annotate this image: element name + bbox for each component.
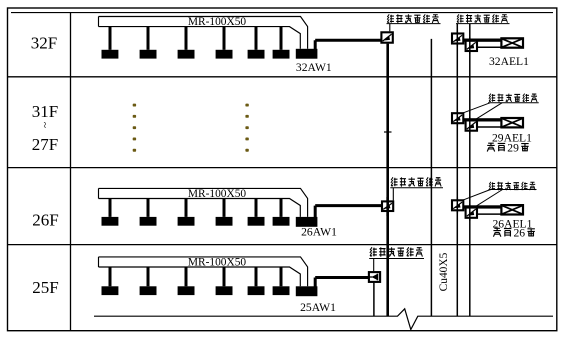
wire from 26AW1 to clamp (315, 206, 381, 218)
load block 4 row 32F (216, 50, 233, 59)
piercing clamp upper 32AEL1 (452, 34, 463, 44)
insulation piercing clamp 32F (381, 32, 392, 42)
luminaire 26AEL1 (501, 205, 523, 214)
drop stem 1 row 26F (109, 198, 112, 217)
leader from label to 26F clamp (392, 188, 394, 201)
busbar MR-100X50 row 25F (99, 257, 308, 286)
load block 1 row 32F (102, 50, 119, 59)
load block 2 row 25F (140, 286, 157, 295)
svg-text:26AW1: 26AW1 (301, 226, 337, 239)
cable return line 26AEL1 (478, 213, 501, 215)
riser Cu40X5 (430, 39, 432, 316)
svg-text:27F: 27F (32, 135, 58, 154)
load block 6 row 32F (273, 50, 290, 59)
cable bar 32AEL1 (464, 39, 501, 42)
drop stem 3 row 25F (185, 267, 188, 287)
cable return line 32AEL1 (478, 46, 501, 48)
riser A overlay through cluster clamps (456, 31, 458, 47)
load block 6 row 25F (273, 286, 290, 295)
load block 2 row 32F (140, 50, 157, 59)
luminaire 29AEL1 (501, 118, 523, 127)
riser overlay through 26F clamp (386, 197, 389, 216)
luminaire 32AEL1 (501, 38, 523, 47)
svg-text:MR-100X50: MR-100X50 (188, 16, 247, 28)
drop stem 3 row 32F (185, 26, 188, 50)
load block 3 row 32F (178, 50, 195, 59)
leader from label to 32F clamp (389, 24, 391, 32)
load block 1 row 25F (102, 286, 119, 295)
piercing clamp lower 32AEL1 (466, 41, 477, 52)
drop from 25F clamp to bottom (373, 283, 375, 317)
drop stem 6 row 32F (280, 26, 283, 50)
drop stem 6 row 26F (280, 198, 283, 217)
connector block 25AW1 (296, 286, 318, 296)
piercing clamp upper 29AEL1 (452, 113, 463, 123)
drop stem 5 row 26F (255, 198, 258, 217)
svg-text:~: ~ (39, 122, 51, 128)
svg-text:26: 26 (514, 227, 526, 240)
riser phase line A (456, 24, 458, 317)
piercing clamp lower 29AEL1 (466, 120, 477, 131)
cluster 29AEL1 label insulation-piercing-clamp (489, 94, 495, 102)
load block 5 row 25F (248, 286, 265, 295)
cluster 26AEL1 label insulation-piercing-clamp (489, 182, 495, 190)
label insulation-piercing-clamp 26F (391, 177, 398, 186)
label installed-at-26F (493, 228, 500, 236)
drop stem 2 row 32F (147, 26, 150, 50)
load block 2 row 26F (140, 217, 157, 226)
drop stem 4 row 32F (223, 26, 226, 50)
svg-text:MR-100X50: MR-100X50 (188, 256, 247, 268)
wire from 32AW1 to clamp (315, 40, 380, 50)
label insulation-piercing-clamp 25F (370, 247, 377, 256)
connector block 32AW1 (296, 49, 318, 59)
splice tick on riser (384, 131, 392, 133)
drop stem 1 row 32F (109, 26, 112, 50)
label installed-at-29F (487, 143, 494, 151)
wire from 25AW1 to clamp (315, 278, 368, 288)
main riser wire (thick) (386, 44, 389, 317)
svg-text:26F: 26F (32, 211, 58, 230)
drop stem 5 row 25F (255, 267, 258, 287)
leader lines to clamps 26AEL1 (461, 190, 491, 201)
cable return line 29AEL1 (478, 126, 501, 128)
connector block 26AW1 (296, 217, 318, 227)
ellipsis dots column left (133, 104, 136, 152)
drop stem 2 row 26F (147, 198, 150, 217)
load block 1 row 26F (102, 217, 119, 226)
drop stem 1 row 25F (109, 267, 112, 287)
load block 3 row 26F (178, 217, 195, 226)
drop stem 6 row 25F (280, 267, 283, 287)
busbar MR-100X50 row 32F (99, 17, 308, 49)
cable bar 26AEL1 (464, 205, 501, 208)
load block 5 row 32F (248, 50, 265, 59)
svg-text:32AW1: 32AW1 (296, 61, 332, 74)
drop stem 2 row 25F (147, 267, 150, 287)
row line between 31F-27F and 26F (8, 167, 557, 169)
inner top line (11, 12, 553, 14)
svg-text:32AEL1: 32AEL1 (489, 55, 529, 68)
busbar MR-100X50 row 26F (99, 188, 308, 217)
svg-text:25AW1: 25AW1 (300, 301, 336, 314)
drop stem 5 row 32F (255, 26, 258, 50)
svg-text:32F: 32F (31, 34, 57, 53)
piercing clamp lower 26AEL1 (466, 207, 477, 218)
piercing clamp upper 26AEL1 (452, 200, 463, 210)
cluster 32AEL1 label insulation-piercing-clamp (457, 14, 464, 22)
svg-text:31F: 31F (32, 102, 58, 121)
insulation piercing clamp 25F (369, 272, 380, 282)
drop stem 4 row 25F (223, 267, 226, 287)
ellipsis dots column right (245, 104, 248, 152)
svg-text:Cu40X5: Cu40X5 (438, 252, 450, 291)
row line between 32F and 31F-27F (8, 76, 557, 78)
svg-text:MR-100X50: MR-100X50 (188, 188, 247, 200)
load block 5 row 26F (248, 217, 265, 226)
inner bottom line with break (94, 309, 553, 330)
leader from label to 25F clamp (373, 259, 375, 272)
insulation piercing clamp 26F (382, 201, 393, 211)
cable bar 29AEL1 (464, 118, 501, 121)
label insulation-piercing-clamp 32F (387, 14, 394, 22)
floor column divider (70, 13, 72, 330)
drop stem 4 row 26F (223, 198, 226, 217)
load block 4 row 26F (216, 217, 233, 226)
load block 3 row 25F (178, 286, 195, 295)
svg-text:29: 29 (507, 142, 519, 155)
svg-text:25F: 25F (32, 278, 58, 297)
drop stem 3 row 26F (185, 198, 188, 217)
riser phase line B (469, 24, 471, 317)
leader lines to clamps 29AEL1 (461, 103, 490, 114)
row line between 26F and 25F (8, 244, 557, 246)
load block 4 row 25F (216, 286, 233, 295)
load block 6 row 26F (273, 217, 290, 226)
